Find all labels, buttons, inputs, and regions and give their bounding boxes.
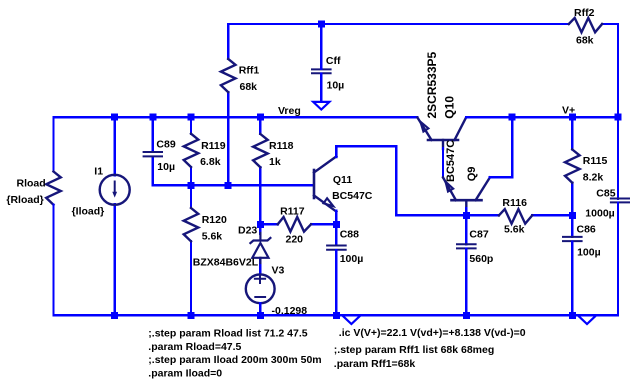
wire C87 stub lower [465, 249, 467, 316]
junction C88 top [333, 221, 340, 228]
wire R115 stubs [571, 117, 573, 215]
svg-text:2SCR533P5: 2SCR533P5 [425, 51, 439, 118]
junction C87 top [463, 212, 470, 219]
wire R118 stubs [259, 117, 261, 224]
svg-text:-0.1298: -0.1298 [272, 305, 308, 317]
svg-text:.ic V(V+)=22.1 V(vd+)=+8.138 V: .ic V(V+)=22.1 V(vd+)=+8.138 V(vd-)=0 [339, 327, 526, 339]
svg-text:.param Iload=0: .param Iload=0 [148, 367, 222, 379]
wire right column upper [617, 117, 619, 199]
wire R120 stubs [190, 185, 192, 315]
svg-text:Q9: Q9 [466, 167, 478, 182]
resistor R117 [278, 217, 311, 232]
svg-text:R116: R116 [502, 197, 527, 209]
svg-text:C87: C87 [469, 228, 488, 240]
wire V+ rail [466, 116, 618, 118]
junction I1 bottom [111, 312, 118, 319]
svg-text:{Iload}: {Iload} [72, 206, 105, 218]
svg-text:BZX84B6V2L: BZX84B6V2L [193, 256, 259, 268]
directive spice right block [334, 327, 526, 370]
junction Rff1 bottom [225, 182, 232, 189]
svg-text:R119: R119 [201, 140, 226, 152]
svg-text:6.8k: 6.8k [200, 156, 221, 168]
wire I1 stubs [113, 117, 115, 315]
svg-text:C86: C86 [577, 224, 596, 236]
wire Q10 base [442, 148, 444, 177]
svg-text:5.6k: 5.6k [504, 223, 525, 235]
svg-text:R117: R117 [280, 205, 305, 217]
wire R116 leads [466, 214, 572, 216]
wire V3 bottom [259, 303, 261, 315]
transistor Q9 [443, 177, 490, 209]
junction R120 bottom [188, 312, 195, 319]
diode D23 zener [250, 233, 270, 263]
wire C87 stub upper [465, 215, 467, 244]
junction R115 top [569, 114, 576, 121]
junction Cff top [318, 21, 325, 28]
resistor Rff1 [221, 59, 236, 92]
transistor Q11 [314, 148, 336, 212]
svg-text:I1: I1 [94, 166, 103, 178]
wire D23 stubs [259, 224, 261, 274]
capacitor C85 [611, 199, 630, 203]
svg-text:BC547C: BC547C [332, 190, 373, 202]
svg-text:;.step param Rff1 list 68k 68m: ;.step param Rff1 list 68k 68meg [334, 344, 494, 356]
wire top rail right corner [602, 24, 618, 117]
svg-text:68k: 68k [576, 35, 594, 47]
capacitor C88 [327, 246, 346, 250]
svg-text:Rff2: Rff2 [574, 7, 595, 19]
wire Q9 base [465, 208, 467, 215]
svg-text:8.2k: 8.2k [583, 171, 604, 183]
svg-text:C89: C89 [156, 139, 175, 151]
wire Vreg rail [54, 116, 418, 118]
svg-text:BC547C: BC547C [445, 140, 457, 182]
junction R115 bottom [569, 212, 576, 219]
wire C86 stub upper [571, 215, 573, 237]
resistor R118 [253, 134, 268, 167]
capacitor C87 [457, 244, 476, 248]
capacitor C86 [563, 237, 582, 241]
junction I1 top [111, 114, 118, 121]
wire Q11 collector elbow [336, 146, 466, 215]
resistor R116 [499, 209, 532, 224]
wire bottom rail [54, 314, 619, 316]
wire mid node line [153, 184, 314, 186]
junction V3 bottom [257, 312, 264, 319]
current source I1 [100, 175, 130, 205]
wire right column lower [617, 203, 619, 316]
wire R117 leads [260, 223, 336, 225]
wire Cff stubs [320, 24, 322, 101]
svg-text:V3: V3 [272, 265, 285, 277]
junction R118 top [257, 114, 264, 121]
wire C89 stubs [152, 117, 154, 185]
voltage source V3 [246, 274, 275, 303]
wire C88 stub upper [335, 224, 337, 245]
resistor Rff2 [569, 18, 602, 32]
svg-text:C85: C85 [596, 188, 615, 200]
ground flag bottom left [344, 317, 360, 324]
junction C89 top [149, 114, 156, 121]
svg-text:C88: C88 [340, 228, 359, 240]
wire C88 stub lower [335, 250, 337, 315]
svg-text:R120: R120 [202, 214, 227, 226]
svg-text:Q11: Q11 [333, 174, 352, 186]
wire R119 stubs [190, 117, 192, 185]
svg-text:;.step param Iload 200m 300m 5: ;.step param Iload 200m 300m 50m [148, 354, 321, 366]
junction Q9 collector at V+ [509, 114, 516, 121]
wire left column top [52, 117, 54, 171]
svg-text:10µ: 10µ [327, 80, 345, 92]
resistor R115 [565, 150, 580, 183]
svg-text:100µ: 100µ [577, 247, 601, 259]
transistor Q10 [418, 118, 467, 149]
svg-text:560p: 560p [469, 253, 493, 265]
svg-text:Rff1: Rff1 [239, 65, 260, 77]
junction R119 top [188, 114, 195, 121]
capacitor C89 [144, 152, 162, 156]
svg-text:R118: R118 [269, 140, 294, 152]
wire C86 stub lower [571, 242, 573, 316]
svg-text:R115: R115 [583, 155, 608, 167]
directive spice left block [148, 328, 321, 380]
svg-text:5.6k: 5.6k [202, 231, 223, 243]
svg-text:100µ: 100µ [340, 253, 364, 265]
ground flag Cff [313, 102, 329, 110]
wire Q9 collector elbow [490, 117, 512, 177]
svg-text:Q10: Q10 [443, 96, 457, 119]
junction C88 bottom [333, 312, 340, 319]
junction R119 bottom [188, 182, 195, 189]
wire Q11 emitter to junction [335, 211, 337, 225]
capacitor Cff [312, 69, 331, 73]
svg-text:Vreg: Vreg [278, 105, 301, 117]
wire top rail left [228, 23, 569, 25]
svg-text:1k: 1k [269, 156, 281, 168]
svg-text:220: 220 [286, 233, 304, 245]
svg-text:{Rload}: {Rload} [6, 194, 43, 206]
svg-text:10µ: 10µ [157, 161, 175, 173]
svg-text:.param Rload=47.5: .param Rload=47.5 [148, 341, 241, 353]
svg-text:D23: D23 [238, 225, 257, 237]
resistor Rload [46, 172, 61, 205]
svg-text:68k: 68k [240, 81, 258, 93]
wire Rff1 stubs [227, 24, 229, 185]
svg-text:;.step param Rload list 71.2 4: ;.step param Rload list 71.2 47.5 [148, 328, 307, 340]
junction D23 node [257, 221, 264, 228]
junction V+ right [615, 114, 622, 121]
resistor R119 [184, 134, 199, 167]
resistor R120 [184, 208, 199, 241]
ground flag bottom right [579, 317, 595, 324]
svg-text:.param Rff1=68k: .param Rff1=68k [334, 358, 416, 370]
svg-text:1000µ: 1000µ [585, 208, 614, 220]
svg-text:Cff: Cff [326, 55, 341, 67]
junction C87 bottom [463, 312, 470, 319]
wire left column bottom [52, 205, 54, 316]
svg-text:Rload: Rload [17, 178, 46, 190]
junction C86 bottom [569, 312, 576, 319]
